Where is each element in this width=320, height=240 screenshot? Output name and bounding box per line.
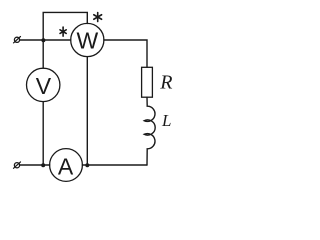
svg-text:V: V — [36, 73, 52, 99]
wire ammeter to bottom right corner — [82, 164, 147, 166]
voltmeter V — [27, 68, 60, 101]
wire wattmeter bottom to node C — [86, 57, 88, 165]
wire node A to wattmeter left — [43, 39, 71, 41]
terminal input top — [14, 37, 21, 43]
wire wattmeter right to right rail corner — [104, 40, 147, 67]
wire bottom terminal to ammeter — [20, 164, 50, 166]
wattmeter W — [71, 23, 104, 56]
svg-text:W: W — [76, 28, 98, 54]
node A junction dot — [41, 38, 45, 42]
resistor R — [142, 67, 153, 97]
wire voltmeter to node B — [42, 102, 44, 165]
polarity asterisk current coil — [60, 27, 66, 36]
svg-text:R: R — [159, 71, 172, 93]
wire top terminal to node A — [20, 39, 43, 41]
ammeter A — [50, 149, 83, 182]
wire left rail node A to voltmeter — [42, 40, 44, 68]
polarity asterisk voltage coil — [94, 13, 102, 22]
svg-text:L: L — [161, 111, 171, 130]
terminal input bottom — [14, 162, 21, 168]
inductor L — [144, 97, 155, 165]
svg-text:A: A — [58, 154, 74, 180]
wire wattmeter voltage-coil bypass — [43, 12, 87, 40]
node B junction dot — [41, 163, 45, 167]
node C junction dot — [85, 163, 89, 167]
